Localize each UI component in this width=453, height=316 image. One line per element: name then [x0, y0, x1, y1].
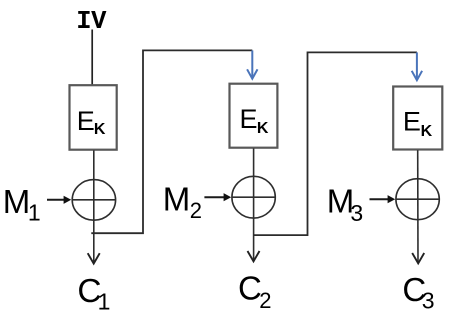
- svg-text:K: K: [94, 121, 106, 138]
- block cipher E_K3 box: [393, 87, 442, 150]
- svg-text:1: 1: [98, 288, 111, 314]
- XOR2 circle: [232, 176, 275, 218]
- svg-text:I: I: [76, 7, 91, 36]
- block cipher E_K2 box: [230, 84, 278, 148]
- XOR1 horizontal bar: [72, 199, 115, 201]
- arrow M2 into XOR2: [204, 193, 231, 201]
- blue arrow into E_K2: [247, 50, 257, 78]
- node IV label: [76, 7, 107, 36]
- svg-text:E: E: [403, 107, 421, 137]
- blue arrow into E_K3: [412, 52, 422, 80]
- label M2: [163, 180, 202, 223]
- svg-text:K: K: [257, 120, 269, 137]
- svg-text:E: E: [240, 104, 258, 134]
- svg-text:1: 1: [28, 200, 41, 226]
- svg-text:3: 3: [422, 288, 435, 314]
- svg-text:3: 3: [350, 200, 363, 226]
- label M1: [3, 183, 41, 226]
- XOR3 circle: [396, 179, 439, 220]
- arrowhead down to C2: [248, 251, 260, 261]
- XOR3 horizontal bar: [396, 198, 438, 200]
- label C3: [402, 271, 434, 314]
- feedback wire from C1 tap to E_K2 (dark part): [91, 50, 252, 233]
- label E_K2: [240, 104, 269, 137]
- label E_K3: [403, 107, 433, 140]
- arrowhead down to C3: [412, 253, 424, 263]
- svg-text:M: M: [3, 183, 31, 220]
- XOR2 horizontal bar: [232, 196, 274, 198]
- svg-text:E: E: [77, 106, 95, 136]
- arrowhead down to C1: [88, 253, 100, 263]
- label E_K1: [77, 106, 106, 138]
- label C2: [238, 269, 271, 312]
- label M3: [327, 182, 363, 225]
- feedback wire from C2 tap to E_K3 (dark part): [253, 52, 417, 235]
- svg-text:2: 2: [190, 198, 202, 223]
- arrow M1 into XOR1: [47, 196, 71, 204]
- wire E_K3 down through XOR3 to output arrow: [417, 150, 419, 261]
- label C1: [77, 273, 110, 315]
- wire IV to E_K1: [91, 30, 93, 86]
- svg-text:2: 2: [259, 288, 271, 313]
- wire E_K1 down through XOR1 to output arrow: [93, 150, 95, 261]
- svg-text:V: V: [91, 7, 107, 36]
- XOR1 circle: [72, 180, 115, 221]
- svg-text:K: K: [421, 123, 433, 140]
- block cipher E_K1 box: [70, 85, 117, 150]
- arrow M3 into XOR3: [370, 195, 396, 203]
- wire E_K2 down through XOR2 to output arrow: [253, 148, 255, 259]
- svg-text:M: M: [163, 180, 191, 217]
